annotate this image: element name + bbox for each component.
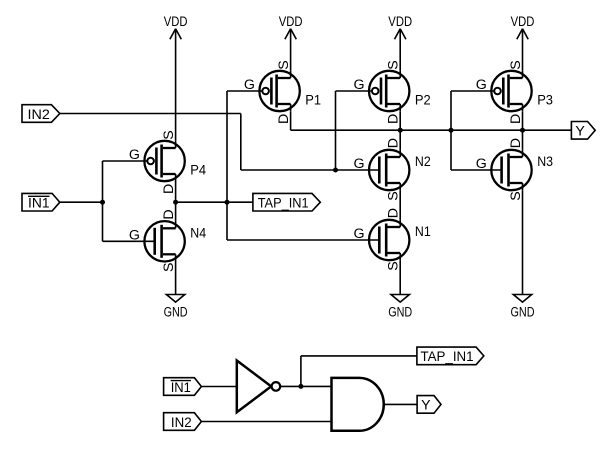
transistor N1 (NMOS) (353, 208, 430, 271)
power symbol GND (388, 295, 412, 321)
transistor N2 (NMOS) (353, 138, 430, 201)
junction TAP_IN1 at drains (173, 200, 178, 205)
junction P3 drain (520, 128, 525, 133)
wire TAP_IN1 vertical (P1 gate / N1 gate) (226, 91, 228, 240)
junction TAP_IN1 at gate vertical (225, 200, 230, 205)
svg-text:D: D (161, 209, 177, 219)
wire TAP_IN1 tap vertical (300, 356, 302, 387)
svg-text:D: D (386, 114, 402, 124)
svg-text:P4: P4 (190, 163, 206, 179)
wire VDD to P1 source (290, 29, 292, 71)
transistor P2 (PMOS) (353, 60, 430, 124)
wire to P3 gate (451, 90, 494, 92)
inverter output bubble (272, 382, 281, 391)
junction IN2 / P2 gate (333, 168, 338, 173)
junction P2 drain (398, 128, 403, 133)
power symbol VDD (164, 14, 188, 39)
wire N3 source to GND (522, 191, 524, 295)
svg-text:P1: P1 (305, 93, 321, 109)
svg-text:D: D (386, 208, 402, 218)
transistor P1 (PMOS) (244, 60, 321, 124)
power symbol GND (164, 295, 188, 321)
power symbol VDD (511, 14, 535, 39)
wire VDD to P4 source (175, 29, 177, 141)
svg-text:S: S (276, 60, 292, 69)
power symbol GND (511, 295, 535, 321)
wire IN2 vertical (240, 114, 242, 171)
wire IN2 branch to P2 gate (336, 90, 373, 92)
svg-text:G: G (244, 77, 255, 93)
junction tap (298, 384, 303, 389)
svg-text:D: D (508, 138, 524, 148)
global label IN2 (22, 105, 60, 123)
global label IN1 (inverted) (22, 193, 60, 211)
wire IN1 from flag (60, 201, 103, 203)
svg-text:TAP_IN1: TAP_IN1 (258, 196, 309, 212)
wire to N1 gate (227, 239, 378, 241)
wire to P4 gate (103, 160, 148, 162)
svg-text:VDD: VDD (279, 14, 303, 30)
global label IN2 bottom (164, 413, 202, 431)
inverter U1 triangle (237, 361, 271, 413)
wire P2 drain to N2 drain (399, 112, 401, 150)
svg-text:S: S (386, 191, 402, 200)
svg-text:P3: P3 (537, 93, 553, 109)
svg-text:N1: N1 (415, 224, 431, 240)
svg-text:VDD: VDD (511, 14, 535, 30)
wire AND output to Y (384, 403, 417, 405)
svg-text:VDD: VDD (164, 14, 188, 30)
wire IN2 to AND input (201, 421, 331, 423)
svg-text:IN2: IN2 (171, 415, 192, 431)
wire IN2 horizontal from flag (60, 113, 241, 115)
svg-text:S: S (161, 130, 177, 139)
svg-text:IN1: IN1 (28, 196, 50, 212)
wire P4 drain to N4 drain (175, 181, 177, 220)
wire IN2 branch to P2 gate vertical (335, 91, 337, 170)
wire N4 source to GND (175, 262, 177, 295)
svg-text:S: S (161, 263, 177, 272)
wire to N3 gate (451, 169, 501, 171)
global label TAP_IN1 (253, 193, 320, 211)
wire NAND output horizontal (291, 129, 572, 131)
svg-text:GND: GND (388, 304, 412, 320)
wire P3/N3 gate vertical (450, 91, 452, 170)
junction IN1 / gates (100, 200, 105, 205)
svg-text:S: S (508, 60, 524, 69)
wire P4/N4 gate vertical (102, 161, 104, 241)
wire N2 source to N1 drain (399, 191, 401, 220)
svg-text:G: G (476, 77, 487, 93)
svg-text:G: G (129, 147, 140, 163)
svg-text:G: G (353, 156, 364, 172)
svg-text:GND: GND (164, 304, 188, 320)
svg-text:S: S (508, 191, 524, 200)
wire P1 drain down (290, 112, 292, 130)
svg-text:G: G (353, 77, 364, 93)
svg-text:N4: N4 (190, 225, 206, 241)
transistor P3 (PMOS) (476, 60, 553, 124)
wire inverter output to AND input (280, 385, 331, 387)
global label Y bottom (417, 396, 441, 414)
transistor P4 (PMOS) (129, 130, 206, 194)
wire N1 source to GND (399, 261, 401, 295)
svg-text:Y: Y (421, 398, 431, 414)
wire to N4 gate (103, 240, 154, 242)
svg-text:IN2: IN2 (28, 107, 50, 123)
svg-text:S: S (386, 261, 402, 270)
wire to P1 gate (227, 90, 262, 92)
svg-text:N2: N2 (415, 154, 431, 170)
transistor N4 (NMOS) (129, 209, 206, 272)
wire VDD to P2 source (399, 29, 401, 71)
svg-text:VDD: VDD (388, 14, 412, 30)
svg-text:GND: GND (511, 304, 535, 320)
svg-text:D: D (276, 114, 292, 124)
svg-text:D: D (386, 138, 402, 148)
svg-text:P2: P2 (415, 93, 431, 109)
power symbol VDD (388, 14, 412, 39)
wire VDD to P3 source (522, 29, 524, 71)
svg-text:G: G (353, 226, 364, 242)
svg-text:Y: Y (575, 124, 585, 140)
wire TAP_IN1 horizontal to flag (176, 201, 253, 203)
svg-text:S: S (386, 60, 402, 69)
svg-text:N3: N3 (537, 154, 553, 170)
power symbol VDD (279, 14, 303, 39)
global label IN1 bottom (inverted) (164, 378, 202, 396)
svg-text:TAP_IN1: TAP_IN1 (421, 349, 474, 365)
transistor N3 (NMOS) (476, 138, 553, 201)
wire IN1 to inverter input (201, 386, 236, 388)
junction gate vertical (449, 128, 454, 133)
svg-text:D: D (508, 114, 524, 124)
wire TAP_IN1 tap horizontal (301, 355, 417, 357)
svg-text:IN1: IN1 (171, 380, 191, 396)
svg-text:G: G (476, 156, 487, 172)
wire IN2 to N2 gate (241, 169, 378, 171)
svg-text:D: D (161, 184, 177, 194)
global label TAP_IN1 bottom (417, 347, 484, 365)
global label Y (571, 122, 595, 140)
wire P3 drain to N3 drain (522, 112, 524, 150)
svg-text:G: G (129, 227, 140, 243)
AND gate U2 (332, 378, 384, 431)
